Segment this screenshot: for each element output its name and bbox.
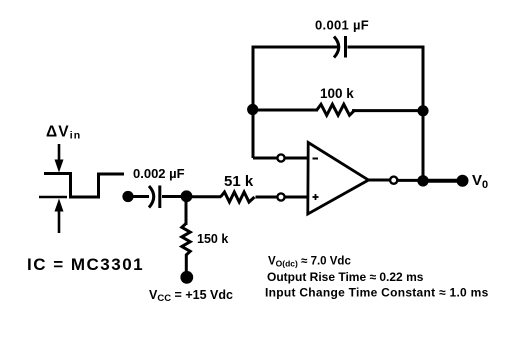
pin: inverting input circle — [277, 154, 284, 161]
wire: feedback left vertical — [252, 46, 255, 159]
svg-text:IC = MC3301: IC = MC3301 — [27, 255, 144, 274]
wire: capacitor to input node — [162, 195, 187, 198]
node: feedback left junction — [247, 104, 258, 115]
wire: output circle to junction — [398, 179, 423, 182]
wire: plus pin to op-amp — [286, 196, 310, 199]
pin: non-inverting input circle — [277, 193, 284, 200]
arrow: up toward bottom level — [55, 200, 63, 233]
svg-text:150 k: 150 k — [197, 232, 228, 246]
op-amp minus sign — [313, 158, 319, 160]
wire: R1 to plus pin — [256, 196, 278, 199]
wire: R3 to VCC terminal — [185, 254, 188, 272]
terminal: VCC dot — [180, 271, 193, 284]
waveform: lower reference line — [39, 196, 67, 199]
svg-text:100 k: 100 k — [320, 86, 354, 101]
op-amp U1 — [308, 143, 369, 215]
svg-text:Output Rise Time ≈ 0.22 ms: Output Rise Time ≈ 0.22 ms — [267, 270, 424, 284]
svg-text:0.001 µF: 0.001 µF — [315, 18, 369, 33]
op-amp plus sign — [313, 194, 319, 200]
wire: output thick segment — [423, 179, 458, 183]
node: input junction — [181, 190, 193, 202]
resistor R1 51 k — [221, 192, 255, 202]
wire: node to R1 — [187, 195, 222, 198]
node: feedback right junction — [417, 105, 428, 116]
svg-text:Input Change Time Constant ≈ 1: Input Change Time Constant ≈ 1.0 ms — [265, 286, 489, 300]
wire: feedback top left segment — [253, 46, 339, 49]
wire: inverting input from feedback — [253, 157, 277, 160]
wire: minus pin to op-amp — [286, 157, 310, 160]
capacitor C2 0.001 uF — [334, 36, 346, 58]
wire: input dot to capacitor — [128, 195, 149, 198]
wire: 100k left lead — [253, 109, 318, 112]
waveform: input step — [44, 174, 124, 198]
arrow: down toward top level — [55, 144, 63, 171]
annotation: output characteristics — [265, 256, 489, 300]
wire: input node down to R3 — [185, 197, 188, 226]
node: output junction — [417, 175, 428, 186]
svg-text:51 k: 51 k — [224, 173, 254, 190]
wire: feedback top right segment — [348, 46, 425, 49]
wire: 100k right lead — [352, 109, 423, 112]
terminal: VO dot — [457, 175, 469, 187]
svg-text:0.002 µF: 0.002 µF — [133, 166, 185, 181]
capacitor C1 0.002 uF — [149, 186, 160, 209]
resistor R2 100 k — [317, 104, 355, 115]
wire: feedback right vertical — [422, 46, 425, 182]
wire: output lead — [368, 179, 390, 182]
pin: output circle — [390, 177, 397, 184]
resistor R3 150 k — [182, 224, 190, 256]
terminal: input dot — [122, 191, 133, 202]
